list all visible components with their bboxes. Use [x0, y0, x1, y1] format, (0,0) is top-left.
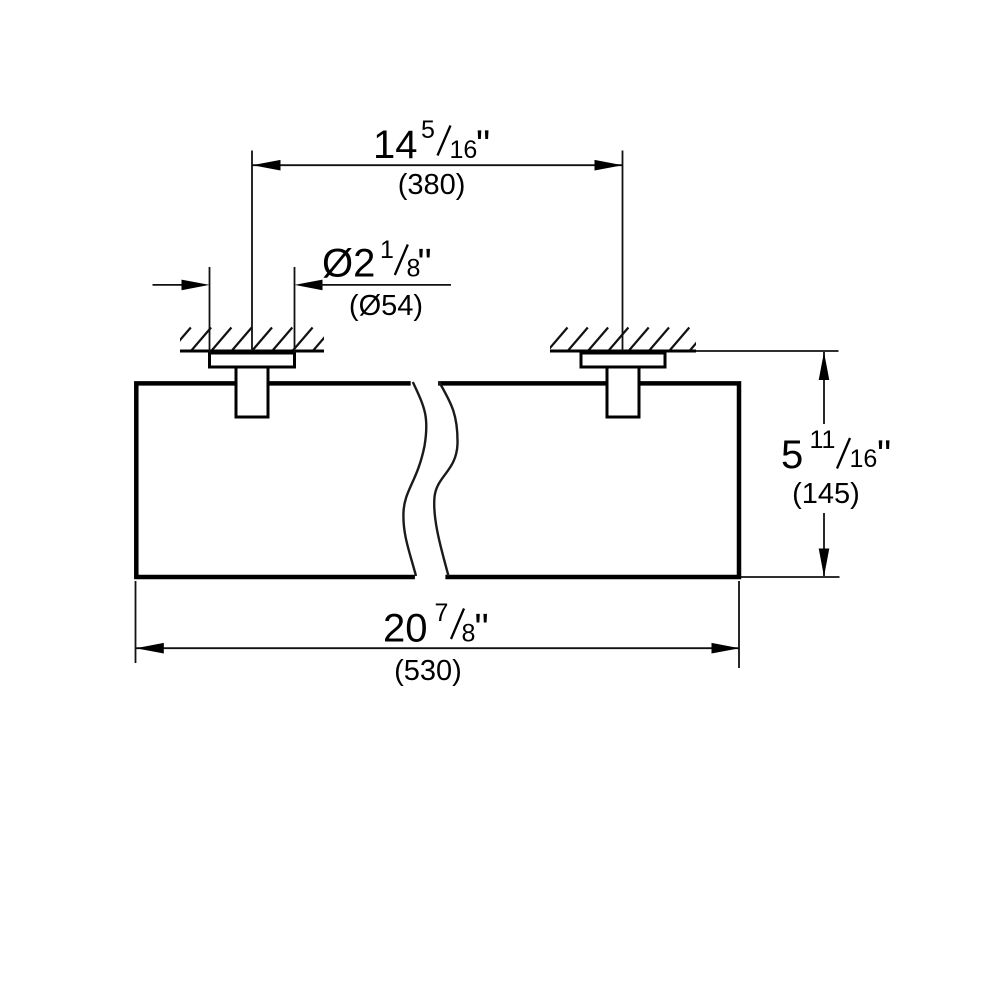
flange left: [210, 353, 295, 367]
svg-text:5: 5: [421, 116, 435, 144]
wall line left: [180, 350, 324, 353]
break line right: [434, 382, 457, 576]
dim text 14 5/16": [373, 116, 490, 167]
break line left: [403, 382, 426, 576]
svg-text:(Ø54): (Ø54): [349, 290, 423, 322]
svg-text:(530): (530): [394, 655, 462, 687]
svg-text:": ": [877, 433, 891, 477]
post right: [607, 367, 639, 417]
small dim left arrow with tail: [153, 284, 185, 286]
right dimension line upper segment: [823, 352, 825, 424]
svg-text:(380): (380): [398, 169, 466, 201]
right dim arrow down: [819, 549, 830, 577]
svg-text:Ø2: Ø2: [322, 242, 375, 286]
right dim top extension: [696, 350, 839, 352]
bottom dim arrow left: [136, 643, 164, 654]
post left: [236, 367, 268, 417]
svg-text:16: 16: [450, 136, 478, 164]
svg-text:14: 14: [373, 123, 418, 167]
flange right: [581, 353, 665, 367]
bottom dimension line: [136, 647, 740, 649]
svg-text:5: 5: [781, 433, 803, 477]
svg-text:": ": [418, 242, 432, 286]
dim text 20 7/8": [383, 599, 489, 651]
svg-text:7: 7: [435, 599, 449, 627]
shelf outline right part: [438, 383, 739, 577]
small dim extension line left: [209, 267, 211, 353]
dim text Ø2 1/8": [322, 236, 432, 286]
svg-text:20: 20: [383, 607, 428, 651]
small dim right arrow with leader: [295, 280, 323, 291]
svg-text:": ": [476, 123, 490, 167]
wall line right: [550, 350, 696, 353]
bottom dim arrow right: [712, 643, 740, 654]
wall hatching right: [547, 328, 710, 353]
shelf outline left part: [136, 383, 415, 577]
svg-text:": ": [475, 607, 489, 651]
svg-text:(145): (145): [792, 478, 860, 510]
right dim bottom extension: [741, 576, 840, 578]
centre line right mount: [622, 151, 624, 352]
right dim arrow up: [819, 352, 830, 380]
right dimension line lower segment: [823, 513, 825, 576]
top dimension line: [253, 164, 623, 166]
bottom dim extension right: [738, 581, 740, 668]
top dim arrow left: [253, 160, 281, 171]
centre line left mount: [251, 151, 253, 352]
top dim arrow right: [595, 160, 623, 171]
svg-text:16: 16: [850, 445, 878, 473]
bottom dim extension left: [135, 581, 137, 663]
svg-text:11: 11: [810, 426, 836, 454]
svg-text:8: 8: [462, 620, 476, 648]
small dim extension line right: [294, 267, 296, 353]
wall hatching left: [170, 328, 333, 353]
svg-text:1: 1: [380, 236, 394, 264]
dim text 5 11/16": [781, 426, 891, 477]
